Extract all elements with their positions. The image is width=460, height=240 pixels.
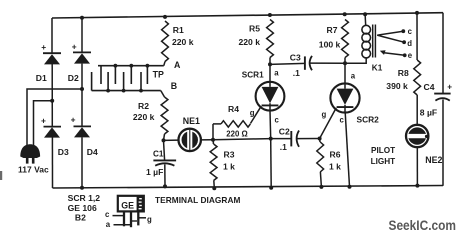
svg-text:GE: GE [121,201,134,211]
capacitor C3 [305,56,312,70]
svg-text:.1: .1 [280,142,287,152]
svg-text:SeekIC.com: SeekIC.com [389,217,457,233]
touch plate TP comb bottom bus [92,90,161,92]
label R1 value 220 k [172,37,194,47]
wire K1 bottom lead [345,58,366,63]
label R6 [330,150,341,160]
node B [171,81,177,91]
wire R4 left riser [212,124,214,140]
svg-text:R4: R4 [228,104,239,114]
svg-text:c: c [340,115,345,124]
neon lamp NE1 [179,129,201,151]
label 117 Vac [18,164,49,174]
relay K1 armature to contact d [377,35,404,42]
resistor R7 [342,20,349,64]
wire top supply rail [52,13,443,18]
svg-text:100 k: 100 k [319,40,341,50]
label NE2 [425,155,442,165]
wire C3 right lead [310,62,345,64]
touch plate TP top finger 3 [129,64,133,84]
label C4 value 8 uF [420,108,437,118]
svg-text:R6: R6 [330,150,341,160]
label D1 [36,73,47,83]
touch plate TP bottom finger 1 [91,72,93,91]
touch plate TP bottom finger 3 [122,72,126,93]
node dot R7 top rail junction [343,12,347,16]
svg-text:SCR 1,2: SCR 1,2 [68,193,101,203]
node dot SCR1 bottom rail junction [269,186,273,190]
svg-text:390 k: 390 k [386,81,408,91]
GE package pin 3 gate [137,212,139,226]
node dot SCR2 bottom rail junction [348,185,352,189]
label C2 value .1 [280,142,287,152]
label C3 [290,52,301,62]
label D4 [87,147,98,157]
capacitor C2 [291,131,299,147]
SCR U1 SCR1 [256,81,285,111]
svg-text:R2: R2 [138,101,149,111]
label R5 value 220 k [239,37,261,47]
svg-text:GE 106: GE 106 [68,203,97,213]
svg-text:220 k: 220 k [239,37,261,47]
resistor R8 [414,60,421,95]
svg-text:c: c [275,115,280,124]
relay coil K1 [362,25,375,58]
node dot R5 top rail junction [268,13,272,17]
node dot R1 top rail junction [163,15,167,19]
label SCR2 gate g [322,110,327,119]
label pin a [106,220,111,229]
svg-text:a: a [274,69,279,78]
svg-text:e: e [408,51,413,60]
label PILOT [371,146,395,155]
svg-text:C4: C4 [424,82,435,92]
svg-text:g: g [322,110,327,119]
svg-text:8 µF: 8 µF [420,108,437,118]
watermark SeekIC.com [389,217,457,233]
label SCR2 anode a [351,72,356,81]
GE package outline [118,195,145,212]
touch plate TP top finger 1 [100,66,102,84]
wire C2 left lead [271,138,292,140]
svg-text:NE2: NE2 [425,155,442,165]
svg-text:+: + [41,42,46,52]
label R1 [173,25,184,35]
svg-text:c: c [408,27,413,36]
wire pin c stub [113,215,125,217]
wire R8 top lead [416,13,418,60]
SCR U2 SCR2 [330,83,359,113]
svg-text:a: a [351,72,356,81]
svg-text:1 µF: 1 µF [146,167,163,177]
wire D2 cathode column [81,18,83,188]
diode D1 [41,42,61,64]
node dot SCR1 cathode row junction [269,137,273,141]
svg-text:+: + [447,82,452,91]
svg-text:C2: C2 [279,127,290,137]
svg-text:TERMINAL DIAGRAM: TERMINAL DIAGRAM [155,195,240,205]
label pin c [105,210,110,219]
node dot D2 top rail junction [80,16,84,20]
GE package pin 1 cathode [123,212,125,227]
capacitor C1 [153,160,176,165]
node dot R6 C2 SCR2-gate junction [318,137,322,141]
diode D2 [72,41,91,63]
wire K1 top lead [364,14,367,25]
label SCR1 [242,71,264,80]
label R4 value 220 ohm [226,129,247,138]
node dot R3 bottom rail junction [212,186,216,190]
svg-text:+: + [72,41,77,51]
label contact e [408,51,413,60]
svg-text:C1: C1 [153,150,164,159]
svg-text:SCR2: SCR2 [357,115,380,125]
resistor R3 [210,140,217,188]
node A [174,60,181,70]
svg-text:.1: .1 [293,68,300,78]
wire C1 top lead [164,140,165,160]
label R2 [138,101,149,111]
label pin g [147,215,152,224]
wire AC line 1 from plug to D2-D4 node [27,87,84,146]
wire pin a stub [114,224,132,226]
svg-text:D4: D4 [87,147,98,157]
wire SCR2 gate lead [320,108,337,139]
label GE 106 [68,203,97,213]
wire R8 to NE2 lead [416,95,418,125]
touch plate TP bottom finger 2 [106,72,110,93]
node dot C1 bottom rail junction [163,184,167,188]
wire D1 anode column [51,18,54,188]
svg-text:220 k: 220 k [133,112,155,122]
label D3 [58,147,69,157]
svg-text:A: A [174,60,181,70]
svg-text:D1: D1 [36,73,47,83]
svg-text:TP: TP [153,70,164,80]
label TP [153,70,164,80]
resistor R2 [161,91,168,141]
wire SCR2 anode lead [344,63,346,83]
diode D3 [41,115,61,137]
label R8 [398,68,409,78]
label SCR2 [357,115,380,125]
svg-text:R3: R3 [224,150,235,160]
label contact c [408,27,413,36]
svg-text:+: + [41,115,46,125]
svg-text:220 k: 220 k [172,37,194,47]
node dot R5 SCR1 C3 junction [268,62,272,66]
label R8 value 390 k [386,81,408,91]
label GE logo [121,201,134,211]
svg-text:LIGHT: LIGHT [371,157,396,166]
node dot NE1 R3 R4 junction [211,138,215,142]
wire NE1 left lead [164,139,179,141]
label SCR 1,2 [68,193,101,203]
node dot R7 K1 SCR2 junction [343,61,347,65]
label R7 value 100 k [319,40,341,50]
svg-text:R1: R1 [173,25,184,35]
diode D4 [71,115,91,138]
node contact e dot [403,53,407,57]
label R2 value 220 k [133,112,155,122]
svg-text:R7: R7 [327,25,338,35]
resistor R5 [267,20,274,65]
wire bottom supply rail [53,186,444,189]
node dot K1 top rail junction [363,12,367,16]
wire pin 2-3 crossbar [131,220,137,222]
resistor R1 [162,21,169,66]
label C1 [153,150,164,159]
label R6 value 1 k [329,162,341,172]
svg-text:D2: D2 [68,73,79,83]
svg-text:C3: C3 [290,52,301,62]
svg-text:+: + [71,115,76,125]
relay K1 lower contact arm with arrowhead [380,50,405,55]
relay K1 armature to contact c [377,31,403,35]
wire pin g stub [138,217,146,219]
node contact d dot [402,40,406,44]
node dot R8 top rail junction [415,11,419,15]
label K1 [372,64,383,73]
label C2 [279,127,290,137]
wire C3 left lead [270,63,305,64]
node dot NE2 bottom rail junction [415,184,419,188]
svg-text:SCR1: SCR1 [242,71,264,80]
resistor R4 [213,121,250,127]
touch plate TP top finger 4 [146,64,150,84]
label SCR1 anode a [274,69,279,78]
wire SCR1 gate lead [250,106,261,123]
label R3 [224,150,235,160]
wire right rail upper segment [442,13,444,94]
svg-text:117 Vac: 117 Vac [18,164,49,174]
svg-text:D3: D3 [58,147,69,157]
label B2 [75,212,86,222]
AC plug P1 [20,144,40,163]
svg-text:R8: R8 [398,68,409,78]
wire NE1 right lead to node [201,139,213,141]
svg-text:a: a [106,220,111,229]
touch plate TP comb top bus [98,65,164,67]
label C1 value 1 uF [146,167,163,177]
label SCR2 cathode c [340,115,345,124]
wire SCR2 cathode lead [345,112,349,186]
wire C2 right lead [297,138,320,140]
svg-text:K1: K1 [372,64,383,73]
svg-text:1 k: 1 k [223,162,235,172]
wire SCR1 anode lead [269,64,271,82]
wire C1 bottom lead [164,164,166,186]
touch plate TP top finger 2 [114,64,118,84]
node dot R6 bottom rail junction [319,185,323,189]
svg-text:B: B [171,81,177,91]
capacitor C4 [434,82,452,100]
label R5 [249,24,260,34]
label LIGHT [371,157,396,166]
neon lamp NE2 pilot light [406,125,428,147]
wire NE1 to SCR1 cathode [213,139,271,140]
label R7 [327,25,338,35]
wire NE2 bottom lead [416,147,418,186]
GE package pin 2 anode [130,212,132,228]
label NE1 [183,116,200,126]
wire right rail lower segment [442,100,444,186]
label TERMINAL DIAGRAM [155,195,240,205]
label SCR1 cathode c [275,115,280,124]
touch plate TP bottom finger 4 [139,72,143,93]
label R3 value 1 k [223,162,235,172]
label D2 [68,73,79,83]
svg-text:PILOT: PILOT [371,146,395,155]
svg-text:g: g [147,215,152,224]
resistor R6 [317,139,324,187]
label C3 value .1 [293,68,300,78]
svg-text:c: c [105,210,110,219]
svg-text:220 Ω: 220 Ω [226,129,247,138]
wire SCR1 cathode lead [270,111,271,188]
svg-text:NE1: NE1 [183,116,200,126]
scan artifact left edge [0,171,2,180]
node contact c dot [401,29,405,33]
svg-text:g: g [250,109,255,118]
svg-text:R5: R5 [249,24,260,34]
node dot D4 bottom rail junction [80,186,84,190]
node dot R2 C1 NE1 junction [162,138,166,142]
label contact d [407,39,412,48]
label R4 [228,104,239,114]
wire AC line 2 from plug to D1-D3 node [34,99,55,147]
svg-text:1 k: 1 k [329,162,341,172]
svg-text:d: d [407,39,412,48]
svg-text:B2: B2 [75,212,86,222]
label C4 [424,82,435,92]
label SCR1 gate g [250,109,255,118]
